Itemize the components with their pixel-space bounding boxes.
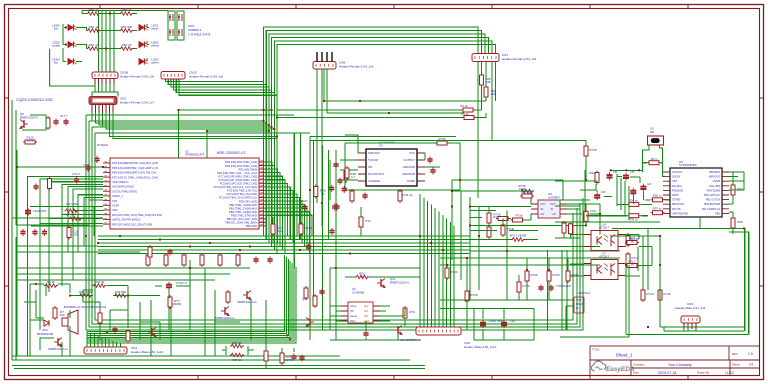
resistor R34 xyxy=(218,253,222,267)
svg-text:VSS: VSS xyxy=(112,199,117,203)
svg-text:C10 n: C10 n xyxy=(83,163,90,167)
svg-text:VSS/B: VSS/B xyxy=(713,180,721,183)
svg-text:1k: 1k xyxy=(630,263,634,267)
optocoupler U4 xyxy=(591,231,618,251)
resistor R2c xyxy=(569,222,573,236)
resistor R30m xyxy=(651,198,665,202)
svg-text:PA1 COMP2 G2: PA1 COMP2 G2 xyxy=(702,208,721,211)
svg-text:C?26|10u/20V: C?26|10u/20V xyxy=(556,285,572,288)
svg-text:GN4 [PD]: GN4 [PD] xyxy=(709,185,720,188)
svg-text:4.7: 4.7 xyxy=(351,175,356,179)
svg-text:1-3-4-6;2-3-4-5: 1-3-4-6;2-3-4-5 xyxy=(188,33,210,37)
svg-text:KRE-C000057-07: KRE-C000057-07 xyxy=(217,151,245,155)
resistor R33 xyxy=(200,253,204,267)
svg-text:PD5/AIN5: PD5/AIN5 xyxy=(672,189,684,192)
diode D12 xyxy=(332,204,337,211)
resistor R18k xyxy=(314,185,318,199)
svg-text:Out: Out xyxy=(364,315,368,318)
svg-text:VDD: VDD xyxy=(576,299,581,302)
svg-text:STM8S005C6T6: STM8S005C6T6 xyxy=(185,153,205,157)
pins CN2 bottom xyxy=(92,105,113,113)
svg-text:PD4 [HS] BEEP/[TIM2_CH1] ADC_E: PD4 [HS] BEEP/[TIM2_CH1] ADC_ETR xyxy=(112,161,158,165)
svg-text:2019-07-18: 2019-07-18 xyxy=(658,371,676,375)
wire right loop xyxy=(560,217,749,337)
svg-text:C49: C49 xyxy=(510,319,515,323)
svg-text:LM358DT: LM358DT xyxy=(548,196,561,200)
svg-text:2k: 2k xyxy=(360,275,364,279)
wire midfield xyxy=(440,258,620,330)
svg-text:IPK: IPK xyxy=(368,165,373,169)
resistor R47 xyxy=(126,329,130,343)
svg-text:PB1 [TIM1_CH2N] AIN1: PB1 [TIM1_CH2N] AIN1 xyxy=(229,206,257,210)
connector CN1C xyxy=(161,72,185,80)
svg-text:OUTPUT: OUTPUT xyxy=(404,158,416,162)
capacitor C33 xyxy=(329,228,334,235)
capacitor C40 xyxy=(291,354,296,361)
svg-text:OUT: OUT xyxy=(550,203,556,206)
svg-text:PD5 [HS] AIN5/[TIM2_CH1] UART1: PD5 [HS] AIN5/[TIM2_CH1] UART1_CK xyxy=(112,166,158,170)
svg-text:Company:: Company: xyxy=(633,363,645,367)
resistor R65 2k xyxy=(120,47,134,51)
resistor R3b xyxy=(230,353,244,357)
svg-text:10776: 10776 xyxy=(285,358,294,362)
svg-text:C?6 n?: C?6 n? xyxy=(72,172,81,176)
U5 pin text xyxy=(672,171,689,215)
wire R3 R4 left xyxy=(277,110,462,118)
svg-text:PB3 [TIM1_ETR] AIN3: PB3 [TIM1_ETR] AIN3 xyxy=(231,213,258,217)
svg-text:yellow: yellow xyxy=(151,44,160,48)
capacitor C6 xyxy=(74,177,79,184)
svg-text:VBR/CKO: VBR/CKO xyxy=(709,176,720,179)
svg-text:PB6 AIN6: PB6 AIN6 xyxy=(246,224,258,228)
svg-text:MMBT2222A-G: MMBT2222A-G xyxy=(237,300,256,304)
svg-text:PC3 [HS] TIM1_CH3 [TLI]: PC3 [HS] TIM1_CH3 [TLI] xyxy=(227,189,257,193)
resistor R10 xyxy=(496,217,510,221)
capacitor C17 xyxy=(53,119,58,126)
svg-text:MMBT2222A-G: MMBT2222A-G xyxy=(390,281,409,285)
transistor Q7 xyxy=(54,338,62,347)
svg-text:C?2|3n: C?2|3n xyxy=(300,200,308,203)
svg-text:UC3843B: UC3843B xyxy=(352,291,364,295)
svg-text:PA3 [HS] TIM2_CH3 [TIME_CH3] P: PA3 [HS] TIM2_CH3 [TIME_CH3] PA3 [HS] xyxy=(112,213,162,217)
svg-text:100: 100 xyxy=(59,313,64,317)
resistor R9b xyxy=(44,284,58,288)
svg-text:MMBT2222A-G: MMBT2222A-G xyxy=(48,347,67,351)
EasyEDA logo xyxy=(591,361,605,371)
svg-text:R?10: R?10 xyxy=(646,292,654,296)
transistor Q12 xyxy=(377,279,385,288)
svg-text:PM2 G2T/CLK: PM2 G2T/CLK xyxy=(704,194,721,197)
wire xyxy=(481,85,483,110)
pins U2 left xyxy=(103,163,110,224)
wire U6 area xyxy=(452,180,620,300)
svg-text:PC7 [HS] SPI_MISO [TIM1_CH2]: PC7 [HS] SPI_MISO [TIM1_CH2] xyxy=(219,174,258,178)
wire bottom center xyxy=(214,290,294,368)
IC U2 MCU xyxy=(110,158,259,229)
capacitor C41 xyxy=(299,355,304,362)
resistor R18b xyxy=(148,245,152,259)
wire U5 left cluster xyxy=(555,170,670,238)
resistor R31 xyxy=(164,253,168,267)
capacitor C32 xyxy=(302,204,307,211)
svg-text:R?24: R?24 xyxy=(552,273,560,277)
svg-text:R17 180: R17 180 xyxy=(521,191,533,195)
wire LED left down xyxy=(50,49,95,86)
resistor Rf12 xyxy=(625,264,639,268)
resistor R38 xyxy=(344,168,348,182)
wire bus MCU right xyxy=(266,162,312,254)
pins CN1B bottom xyxy=(95,79,114,85)
wire xyxy=(485,97,487,101)
svg-text:Isense: Isense xyxy=(350,315,358,318)
capacitor C8 xyxy=(42,229,47,236)
svg-text:R3 1k: R3 1k xyxy=(460,104,468,108)
resistor R35 xyxy=(236,253,240,267)
svg-text:Your Company: Your Company xyxy=(668,363,692,367)
capacitor C4 xyxy=(25,208,31,216)
svg-text:PM2 BG2T/2B: PM2 BG2T/2B xyxy=(704,203,720,206)
capacitor C47 xyxy=(363,331,368,338)
svg-text:10u: 10u xyxy=(73,233,78,237)
svg-text:1k: 1k xyxy=(630,240,634,244)
wire bus MCU left xyxy=(17,150,103,356)
svg-text:MMBT2222A-G: MMBT2222A-G xyxy=(215,316,234,320)
resistor R20 xyxy=(465,289,469,303)
transistor Q9 xyxy=(221,307,229,316)
pins U6 xyxy=(531,204,567,214)
resistor R16c xyxy=(271,222,275,236)
svg-text:TC/CAP: TC/CAP xyxy=(368,158,378,162)
resistor R42 xyxy=(280,351,284,365)
resistor R62 1k xyxy=(87,47,101,51)
resistor R20b xyxy=(445,266,449,280)
resistor R22 xyxy=(48,177,52,191)
svg-text:VSS: VSS xyxy=(672,180,677,183)
svg-text:Header-Female-2.54_1x4: Header-Female-2.54_1x4 xyxy=(339,65,374,69)
svg-text:GND/SUB: GND/SUB xyxy=(402,172,415,176)
wire bus S-route xyxy=(166,27,496,254)
svg-text:R4? 10k: R4? 10k xyxy=(66,202,78,206)
svg-text:PC6 [HS] SPI_MOSI [TIM1_CH1]: PC6 [HS] SPI_MOSI [TIM1_CH1] xyxy=(219,178,258,182)
capacitor C49 xyxy=(501,320,507,328)
svg-text:R?16: R?16 xyxy=(663,292,671,296)
svg-text:R?26: R?26 xyxy=(530,273,538,277)
svg-text:R30 m: R30 m xyxy=(653,194,662,198)
svg-text:PC1 [HS] TIM1_CH1 UART2_CK: PC1 [HS] TIM1_CH1 UART2_CK xyxy=(219,196,258,200)
capacitor C8 xyxy=(20,229,25,236)
wire opto area xyxy=(570,229,652,291)
svg-text:R?24: R?24 xyxy=(304,226,312,230)
capacitor C41 xyxy=(640,184,646,192)
transistor Q8 xyxy=(243,291,251,300)
svg-text:R9 3k: R9 3k xyxy=(47,280,55,284)
svg-text:PD7 [HS] TLI [TIM1_CH4] [ADC1_: PD7 [HS] TLI [TIM1_CH4] [ADC1_CH4] xyxy=(112,175,158,179)
capacitor C19 xyxy=(167,249,172,256)
svg-text:Drawn By:: Drawn By: xyxy=(697,371,710,375)
svg-text:R6X 690: R6X 690 xyxy=(121,25,133,29)
transistor Q5 xyxy=(20,120,28,129)
pins U5 xyxy=(663,172,729,213)
wire U3 area xyxy=(294,133,492,340)
resistor R51 xyxy=(313,294,317,308)
IC U5 STM8S003 xyxy=(670,168,722,217)
resistor R119 xyxy=(23,140,37,144)
svg-text:R?19|10k: R?19|10k xyxy=(97,143,109,147)
IC U6 LM358 xyxy=(538,200,560,218)
svg-text:R44 3k: R44 3k xyxy=(95,280,105,284)
capacitor C40 xyxy=(630,188,636,196)
svg-text:VCAP: VCAP xyxy=(112,204,119,208)
connector CN5 xyxy=(681,316,700,323)
resistor Rx16 xyxy=(658,288,662,302)
svg-text:Header-Male-2.54_1x6: Header-Male-2.54_1x6 xyxy=(675,306,706,310)
resistor R24 xyxy=(547,269,551,283)
resistor R17 xyxy=(511,238,525,242)
svg-text:DC/OUTPUT: DC/OUTPUT xyxy=(368,172,385,176)
U2 pin text right xyxy=(214,160,258,228)
svg-text:Header-Male-2.54_1x10: Header-Male-2.54_1x10 xyxy=(464,345,497,349)
resistor R64 2k xyxy=(120,29,134,33)
capacitor C30 xyxy=(329,185,334,192)
wire CN5 xyxy=(664,327,696,331)
svg-text:400 m: 400 m xyxy=(651,158,658,161)
svg-text:CQ29-C000012-93G: CQ29-C000012-93G xyxy=(16,97,53,102)
resistor D9 xyxy=(403,306,407,320)
capacitor C26 xyxy=(480,320,486,328)
svg-text:PB4 NSST: PB4 NSST xyxy=(672,203,685,206)
svg-text:OSCIN: OSCIN xyxy=(672,176,680,179)
title block xyxy=(590,346,760,376)
svg-text:ST-8S003F3P6: ST-8S003F3P6 xyxy=(679,163,697,167)
crystal X2 xyxy=(648,136,664,145)
svg-text:OUT: OUT xyxy=(540,203,546,206)
svg-text:Header-Female-2.54_1x6: Header-Female-2.54_1x6 xyxy=(120,75,155,79)
svg-text:VDD: VDD xyxy=(112,208,118,212)
svg-text:R91: R91 xyxy=(589,171,595,175)
resistor R16 xyxy=(67,226,71,240)
svg-text:PB4 [I2C_SCL] ADC_ETR: PB4 [I2C_SCL] ADC_ETR xyxy=(227,217,257,221)
resistor R4 xyxy=(462,116,476,120)
zener ZD4 xyxy=(44,320,49,326)
wire CN6 bundle xyxy=(420,194,454,327)
resistor R30 xyxy=(146,253,150,267)
svg-text:PB7 [SPI_MISO] I2C_SDA [T] PB5: PB7 [SPI_MISO] I2C_SDA [T] PB5 xyxy=(112,222,153,226)
LED6 xyxy=(68,25,77,31)
capacitor C23 xyxy=(333,162,338,169)
svg-text:R98: R98 xyxy=(737,220,743,224)
capacitor C7 xyxy=(33,184,38,191)
resistor R7 xyxy=(168,295,172,309)
svg-text:R3? m: R3? m xyxy=(653,207,662,211)
svg-text:EasyEDA: EasyEDA xyxy=(606,366,635,373)
resistor R26 xyxy=(435,141,449,145)
svg-text:1/1: 1/1 xyxy=(749,363,754,367)
wire bus midfield verticals xyxy=(548,250,568,330)
resistor R91 xyxy=(595,171,599,185)
pins U4 xyxy=(584,235,625,247)
svg-text:Header-Female-2.54_1x6: Header-Female-2.54_1x6 xyxy=(502,57,537,61)
svg-text:Comp: Comp xyxy=(350,305,357,308)
transistor Q2b xyxy=(394,326,402,335)
capacitor C35 xyxy=(623,173,629,181)
LED4 xyxy=(68,59,77,65)
pins CN1C bottom xyxy=(166,79,179,81)
connector CN1B xyxy=(92,72,118,79)
wire left grid xyxy=(12,100,425,369)
resistor R21 xyxy=(46,116,50,130)
resistor R44 xyxy=(93,284,107,288)
transistor Q10 xyxy=(306,318,314,327)
resistor R24b xyxy=(299,222,303,236)
resistor R25 xyxy=(566,269,570,283)
resistor R52 xyxy=(304,286,308,300)
resistor R31m xyxy=(651,211,665,215)
capacitor C35 xyxy=(112,327,117,334)
svg-text:PD2 [HS] AIN3 [TIM2_CH3]: PD2 [HS] AIN3 [TIM2_CH3] xyxy=(225,164,257,168)
svg-text:ATC817: ATC817 xyxy=(599,226,609,230)
resistor R18c xyxy=(626,233,630,247)
svg-text:SWC/INV: SWC/INV xyxy=(368,151,380,155)
resistor R16b xyxy=(511,218,525,222)
svg-text:1%: 1% xyxy=(278,229,283,233)
svg-text:Header-Female-2.54_1x7: Header-Female-2.54_1x7 xyxy=(120,101,155,105)
resistor R41 xyxy=(264,349,268,363)
svg-text:PC2 [HS] TIM1_CH2 AIN0: PC2 [HS] TIM1_CH2 AIN0 xyxy=(227,192,258,196)
svg-text:C17 ?: C17 ? xyxy=(60,114,68,118)
wire R3 R4 right xyxy=(475,110,486,118)
svg-text:DIA [RU]: DIA [RU] xyxy=(672,185,682,188)
resistor Rf11 xyxy=(625,241,639,245)
LED2 xyxy=(139,42,148,48)
svg-text:R?8 m: R?8 m xyxy=(629,218,638,222)
svg-text:OSCOUT/PA2 [TIM3]: OSCOUT/PA2 [TIM3] xyxy=(112,189,137,193)
wire right of U5 xyxy=(729,172,744,234)
wire CN2 link block xyxy=(178,110,271,158)
wire VDD flag xyxy=(560,300,574,330)
resistor R3 xyxy=(461,108,475,112)
svg-text:R?4: R?4 xyxy=(365,219,371,223)
svg-text:Gnd: Gnd xyxy=(364,320,369,323)
pins U7 xyxy=(584,264,625,276)
svg-text:Header-Female-2.54_1x6: Header-Female-2.54_1x6 xyxy=(189,75,224,79)
svg-text:LLCC: LLCC xyxy=(725,371,735,375)
buzzer BUZZER1 xyxy=(62,310,78,334)
resistor R29 xyxy=(345,166,349,180)
wire led ladder xyxy=(63,10,168,61)
svg-text:NRST: NRST xyxy=(672,194,679,197)
wire R pair loop xyxy=(222,346,254,355)
svg-text:R6X 2k: R6X 2k xyxy=(122,43,132,47)
svg-text:SK6806-2: SK6806-2 xyxy=(188,28,202,32)
svg-text:PD6 [HS] AIN6/[UART1_RX] TIM_C: PD6 [HS] AIN6/[UART1_RX] TIM_CH1 xyxy=(112,171,157,175)
capacitor C2 4.7u xyxy=(166,282,172,290)
svg-text:R?16: R?16 xyxy=(515,214,523,218)
U2 pin text left xyxy=(112,161,162,226)
svg-text:8M: 8M xyxy=(650,131,653,134)
svg-text:UART/DE PB1: UART/DE PB1 xyxy=(672,212,689,215)
resistor R19 xyxy=(520,189,534,193)
resistor R39 xyxy=(114,294,128,298)
resistor R90 300 xyxy=(647,161,661,165)
svg-text:1k: 1k xyxy=(321,192,325,196)
wire buzzer area xyxy=(24,284,190,356)
resistor R60 1k xyxy=(87,12,101,16)
capacitor C8 xyxy=(32,229,37,236)
svg-text:REV:: REV: xyxy=(732,352,739,356)
capacitor C46 xyxy=(319,289,324,296)
svg-text:D?9: D?9 xyxy=(409,310,415,314)
capacitor C25 xyxy=(362,193,367,200)
svg-text:PB2 [TIM1_CH3N] AIN2: PB2 [TIM1_CH3N] AIN2 xyxy=(229,210,257,214)
svg-text:TITLE:: TITLE: xyxy=(592,348,600,352)
wire U1 area xyxy=(330,268,420,340)
capacitor C12b xyxy=(306,244,311,251)
svg-text:R?11 1k: R?11 1k xyxy=(402,193,413,197)
resistor R98 xyxy=(731,216,735,230)
svg-text:R2? 1%: R2? 1% xyxy=(65,213,76,217)
svg-text:Sheet_1: Sheet_1 xyxy=(616,353,633,358)
svg-text:C?2|4.7u: C?2|4.7u xyxy=(176,281,188,285)
resistor R4b xyxy=(359,215,363,229)
resistor R28 xyxy=(398,189,402,203)
svg-text:GROUND: GROUND xyxy=(403,165,415,169)
pins U2 right xyxy=(259,162,266,226)
LED3 xyxy=(139,59,148,65)
svg-text:PA3 SS: PA3 SS xyxy=(672,208,681,211)
svg-text:PC4 [HS] TIM1_CH4 CLK_CCO AIN2: PC4 [HS] TIM1_CH4 CLK_CCO AIN2 xyxy=(214,185,258,189)
resistor R32 xyxy=(182,253,186,267)
svg-text:Vref: Vref xyxy=(364,305,369,308)
svg-text:C?10: C?10 xyxy=(590,210,597,213)
svg-text:PB2 G2T/2A: PB2 G2T/2A xyxy=(706,199,720,202)
U2 pin numbers xyxy=(105,161,264,225)
LED5 xyxy=(68,42,77,48)
resistor R26b xyxy=(525,269,529,283)
capacitor C1x xyxy=(267,257,272,264)
svg-text:100k: 100k xyxy=(27,139,34,143)
connector CN4 xyxy=(84,347,127,354)
capacitor C28 10u/20V xyxy=(548,285,553,292)
pins CN8 top xyxy=(317,52,332,62)
optocoupler U7 xyxy=(591,260,618,280)
resistor R1c xyxy=(562,221,566,235)
resistor R100 xyxy=(53,306,57,320)
svg-text:-IN: -IN xyxy=(540,208,543,211)
resistor R46 xyxy=(98,311,102,325)
svg-text:middle: middle xyxy=(52,44,61,48)
capacitor C24 xyxy=(337,178,342,185)
wire CN1B-CN2 xyxy=(92,84,118,97)
resistor R99 xyxy=(731,183,735,197)
LED1 xyxy=(139,25,148,31)
svg-text:VSSIO_1: VSSIO_1 xyxy=(112,194,123,198)
svg-text:COMP: COMP xyxy=(407,179,416,183)
svg-text:PB0 [TIM1_CH1N] AIN0: PB0 [TIM1_CH1N] AIN0 xyxy=(229,203,257,207)
resistor R3a xyxy=(230,344,244,348)
pins U1 xyxy=(341,306,380,321)
wire R15 xyxy=(492,141,586,181)
svg-text:Header-Male-2.54_1x10: Header-Male-2.54_1x10 xyxy=(131,350,164,354)
svg-text:20000: 20000 xyxy=(173,302,182,306)
svg-text:bot: bot xyxy=(54,61,58,65)
pins U3 xyxy=(358,153,425,181)
connector CN1 xyxy=(472,54,499,62)
resistor R45 xyxy=(65,209,79,213)
wire bus under MCU xyxy=(98,236,470,254)
resistor R40 xyxy=(226,290,230,304)
svg-text:Rt/Ct: Rt/Ct xyxy=(350,320,356,323)
capacitor C20 xyxy=(538,285,543,292)
